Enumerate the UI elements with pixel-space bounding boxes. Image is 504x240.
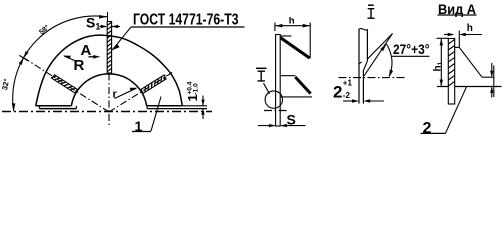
base line right segment [147,108,207,110]
weld end dim upper arrow [491,63,493,76]
27deg label shelf [392,55,430,57]
weld callout shelf [131,26,245,28]
bevel extension diagonal lower [364,34,393,77]
svg-text:2: 2 [423,120,432,137]
bottom chord right segment [147,105,183,107]
weld top corner line [455,46,460,48]
svg-text:1: 1 [135,118,143,134]
weld end dim lower arrow [491,88,493,98]
svg-text:S: S [287,111,296,127]
base middle vertical tick [75,106,77,109]
bevel extension diagonal upper [368,34,393,60]
dimension arc top arrowhead [99,15,107,19]
node: detail I figure (edge preparation) [339,5,430,103]
svg-text:2: 2 [333,82,342,101]
left diagonal axis dash-dot 32.4deg [24,58,109,112]
left rib at 32.4deg (hatched) [51,74,77,93]
arrowhead on diagonal [380,44,386,51]
horizontal axis dash-dot [2,111,212,113]
weld end extension line [493,66,495,98]
base line left segment [39,108,76,110]
Vid A underline [438,14,477,16]
h right extension line [458,31,460,48]
h left extension line [274,23,276,32]
detail label I leader [264,83,270,94]
angular dimension arc R95.3 [13,16,107,111]
angle arc 27deg [387,44,393,76]
detail label I glyph [256,67,267,69]
svg-text:Вид А: Вид А [438,2,476,17]
dim 1 vertical line with outside arrows [202,96,204,120]
h dimension line with arrows [275,25,309,27]
rib1 top edge line [280,35,291,37]
tick on dimension arc at 147.6deg with two arrowheads [19,51,29,65]
r leader with arrow on hole arc [115,88,137,98]
svg-text:R: R [74,57,85,74]
base right vertical tick [146,106,148,109]
svg-text:h: h [467,23,473,34]
base left vertical tick [38,106,40,109]
h1 dimension line with arrows [440,39,442,87]
bottom chord extension to dimension [182,105,207,107]
vertical axis dash-dot [108,74,110,126]
outer arc R73.5 of diaphragm [36,35,183,106]
h dim left arrow [444,34,453,36]
svg-text:ГОСТ 14771-76-Т3: ГОСТ 14771-76-Т3 [133,12,239,29]
dim 2 left arrow [343,100,358,102]
weld end top edge [482,76,494,78]
title I glyph with overbar [368,4,374,6]
plate right edge lower (root face) [362,71,364,104]
label h1 rotated fig4 [433,61,445,71]
svg-text:27°+3°: 27°+3° [393,41,430,57]
flange top line [437,86,502,88]
h1 top extension line [437,37,449,39]
h dim right arrow with tail [460,34,482,36]
rib2 sloped band (blackened) [295,77,310,94]
plate (edge view) [276,35,281,127]
right rib at 32deg (hatched) [141,75,167,94]
node: left figure semicircular diaphragm [2,12,245,132]
plate top break cap [359,29,369,30]
position 2 leader [446,87,467,133]
detail circle I [265,91,282,108]
axis dash-dot through plate bottom [264,110,287,112]
root notch on left edge [359,62,362,64]
S1 dimension left arrow [100,26,107,28]
bottom chord left segment [36,105,72,107]
position 1 underline [132,131,151,133]
S dimension right arrow with tail [281,125,305,127]
inner hole arc r38 [71,74,146,106]
weld axis dash-dot [339,77,407,79]
angle arc bottom arrowhead [389,70,393,78]
position 1 leader [151,97,161,132]
vertical rib S1 (hatched) [107,22,111,74]
dim 2 right arrow [365,100,385,102]
right diagonal axis dash-dot 32deg [109,72,173,112]
weld sloped top edge [459,47,482,77]
dimension arc bottom arrowhead [12,103,16,111]
rib1 sloped band (blackened) [280,38,309,58]
rib2 top edge line [280,75,295,77]
svg-text:h: h [289,15,295,26]
svg-text:-1.0: -1.0 [193,83,200,95]
plate right edge upper [366,29,368,61]
rib front view (hatched) [448,39,454,105]
weld callout leader to rib [112,27,131,50]
S1 dimension right arrow [112,26,120,28]
S dimension left arrow [258,125,275,127]
svg-text:+1: +1 [343,79,353,88]
label dim 1 with tolerances (rotated) [185,81,200,101]
h right extension line [309,23,311,59]
plate left edge [358,29,360,103]
R leader with arrow on outer arc [64,56,74,61]
top extension line above rib [107,12,109,22]
bevel face [363,61,367,71]
position 2 underline [421,132,446,134]
node: view A figure [421,15,502,133]
svg-text:r: r [113,89,118,101]
node: middle figure side view [256,23,312,128]
svg-text:-2: -2 [343,91,351,100]
rib2 bottom edge line [280,96,312,98]
